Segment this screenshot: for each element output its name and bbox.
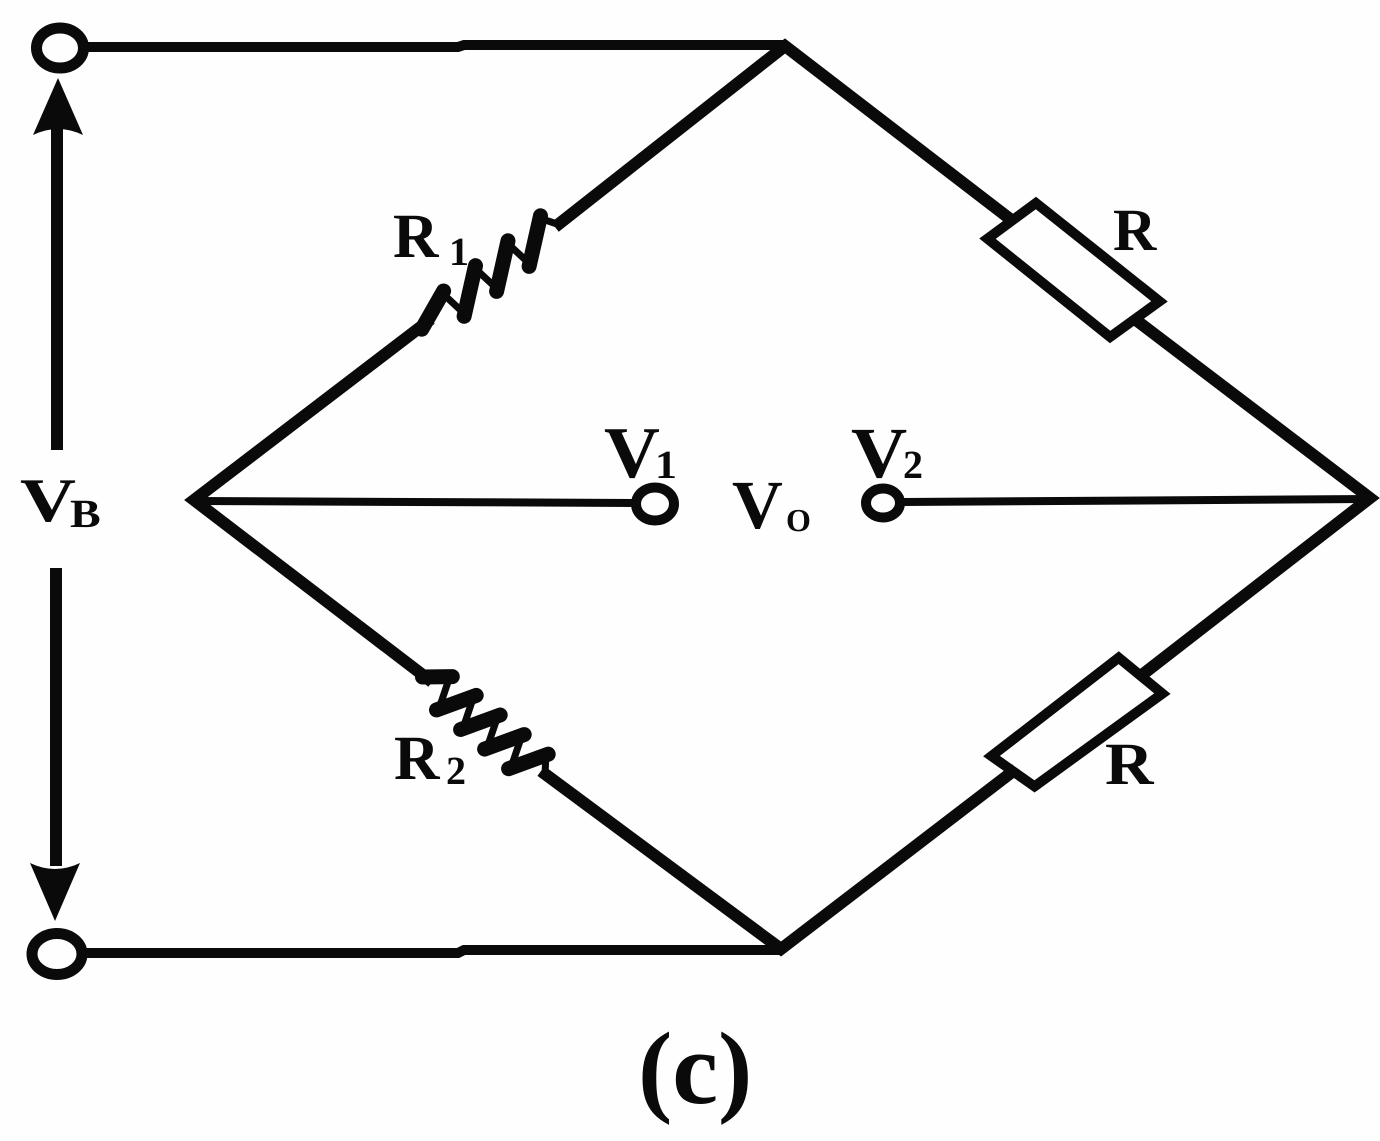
arrow VB head down [30, 863, 80, 921]
resistor R2 zigzag [423, 677, 549, 775]
label R2 [395, 738, 440, 779]
wire top horizontal [86, 45, 786, 47]
wire R top to right node and down to R bottom [1132, 317, 1370, 678]
terminal circle top-left [37, 28, 84, 68]
terminal circle V1 [636, 488, 674, 521]
wire R2 to bottom node, node bottom, wire to R bottom [541, 769, 1016, 949]
arrow VB shaft upper [51, 128, 63, 450]
label V1 [605, 429, 659, 478]
terminal circle V2 [866, 489, 900, 518]
wire middle right [903, 499, 1368, 502]
label VB [21, 480, 75, 522]
resistor R top box [988, 203, 1160, 337]
label V2 [852, 430, 906, 478]
resistor R bottom box [992, 658, 1163, 787]
wire R1 to top node, node top, wire to R top [555, 46, 1014, 227]
label R1 [394, 216, 439, 257]
arrow VB shaft lower [50, 568, 62, 866]
label R bottom [1106, 745, 1154, 784]
terminal circle bottom-left [32, 934, 82, 975]
label R top [1114, 211, 1157, 250]
wire middle left [196, 501, 634, 503]
arrow VB head up [33, 78, 83, 135]
resistor R1 zigzag [422, 216, 557, 329]
wire bottom horizontal [86, 950, 781, 953]
wire left-node to R1 and R2 (node left) [194, 319, 432, 682]
label VO [733, 483, 782, 529]
caption (c) [643, 1032, 748, 1125]
